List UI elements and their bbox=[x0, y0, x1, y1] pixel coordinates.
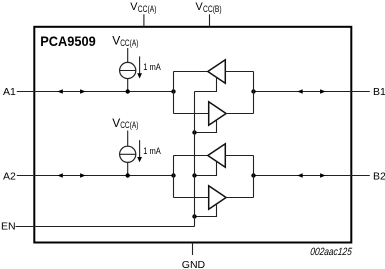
arrow I1 current direction bbox=[139, 56, 141, 74]
svg-text:1 mA: 1 mA bbox=[143, 145, 161, 156]
wire enable U2 bbox=[195, 120, 217, 133]
wire node A1 to buffer U2 input bbox=[174, 113, 209, 115]
svg-text:V: V bbox=[112, 33, 120, 47]
arrow A2 right bbox=[80, 173, 86, 178]
wire I1 to node A1 bbox=[127, 79, 129, 92]
wire enable U4 bbox=[195, 204, 217, 217]
current source I2 bar bbox=[120, 153, 136, 155]
wire A2 top to buffer U3 output bbox=[174, 155, 208, 157]
svg-text:CC(A): CC(A) bbox=[120, 38, 139, 48]
junction dot I2/A2 bbox=[126, 173, 130, 177]
arrow B2 left bbox=[297, 173, 303, 178]
wire U4 output to node B2 bbox=[226, 197, 253, 199]
wire A1 bbox=[17, 91, 174, 93]
wire VCC(A) to current source I2 bbox=[127, 131, 129, 147]
wire node B1 vertical bbox=[253, 72, 255, 114]
node B2 junction dot bbox=[251, 173, 255, 177]
node B1 junction dot bbox=[251, 89, 255, 93]
arrow A1 right bbox=[80, 89, 86, 94]
svg-text:002aac125: 002aac125 bbox=[310, 246, 353, 258]
junction dot enable U2 bbox=[192, 130, 196, 134]
wire U2 output to node B1 bbox=[226, 113, 253, 115]
node A1 junction dot bbox=[171, 89, 175, 93]
svg-text:EN: EN bbox=[1, 220, 16, 232]
wire A1 top to buffer U1 output bbox=[174, 71, 208, 73]
buffer U4 (A2 to B2, points right) bbox=[209, 186, 226, 209]
current source I2 circle bbox=[120, 146, 136, 162]
IC body PCA9509 bbox=[34, 27, 351, 243]
svg-text:CC(A): CC(A) bbox=[138, 4, 157, 14]
wire node B2 vertical bbox=[253, 156, 255, 198]
wire U1 input to node B1 bbox=[225, 71, 253, 73]
buffer U1 (B1 to A1, points left) bbox=[208, 60, 226, 83]
pin GND lead bbox=[192, 243, 194, 256]
svg-text:PCA9509: PCA9509 bbox=[40, 33, 96, 48]
arrow I2 current direction bbox=[139, 140, 141, 158]
wire node A2 vertical bbox=[173, 156, 175, 198]
wire enable U3 bbox=[195, 162, 217, 176]
wire I2 to node A2 bbox=[127, 162, 129, 175]
arrow A2 left bbox=[57, 173, 63, 178]
svg-text:A1: A1 bbox=[3, 86, 16, 98]
wire VCC(A) to current source I1 bbox=[127, 48, 129, 63]
svg-text:CC(B): CC(B) bbox=[203, 4, 222, 14]
svg-text:CC(A): CC(A) bbox=[120, 120, 139, 130]
buffer U3 (B2 to A2, points left) bbox=[208, 144, 226, 167]
arrow B1 right bbox=[320, 89, 326, 94]
svg-text:B1: B1 bbox=[373, 86, 385, 98]
svg-text:B2: B2 bbox=[373, 170, 385, 182]
node A2 junction dot bbox=[171, 173, 175, 177]
arrow A1 left bbox=[57, 89, 63, 94]
wire EN rail vertical bbox=[194, 92, 196, 227]
current source I1 circle bbox=[120, 62, 136, 78]
wire enable U1 bbox=[195, 77, 217, 91]
wire B2 bbox=[254, 175, 370, 177]
pin VCC(A) top lead bbox=[143, 14, 145, 26]
arrow B2 right bbox=[320, 173, 326, 178]
arrow B1 left bbox=[297, 89, 303, 94]
junction dot enable U3 bbox=[192, 173, 196, 177]
wire U3 input to node B2 bbox=[225, 155, 253, 157]
junction dot enable U4 bbox=[192, 214, 196, 218]
wire node A2 to buffer U4 input bbox=[174, 197, 209, 199]
pin VCC(B) top lead bbox=[209, 14, 211, 26]
svg-text:1 mA: 1 mA bbox=[143, 61, 161, 72]
svg-text:V: V bbox=[112, 116, 120, 130]
wire node A1 vertical bbox=[173, 72, 175, 114]
current source I1 bar bbox=[120, 70, 136, 72]
buffer U2 (A1 to B1, points right) bbox=[209, 102, 226, 125]
wire A2 bbox=[17, 175, 174, 177]
wire EN bbox=[16, 226, 195, 228]
svg-text:GND: GND bbox=[182, 259, 206, 269]
junction dot I1/A1 bbox=[126, 89, 130, 93]
wire B1 bbox=[254, 91, 370, 93]
svg-text:A2: A2 bbox=[3, 170, 16, 182]
